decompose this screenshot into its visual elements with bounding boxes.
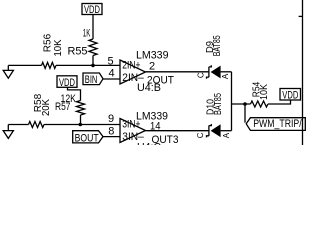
svg-text:5: 5 [107, 56, 113, 68]
wire pin8 [103, 136, 120, 138]
svg-text:4: 4 [108, 68, 114, 80]
diode D9 BAT85 [207, 65, 232, 78]
svg-text:8: 8 [108, 126, 114, 138]
svg-text:10K: 10K [53, 39, 64, 56]
svg-text:BOUT: BOUT [75, 133, 99, 145]
comparator U4:C [120, 110, 179, 153]
resistor R55 [89, 39, 97, 56]
svg-text:VDD: VDD [59, 77, 75, 89]
wire right border [302, 0, 304, 145]
resistor R56 [42, 62, 57, 68]
diode D10 BAT85 [207, 124, 232, 137]
wire pin5 left segment [8, 64, 41, 66]
wire output U4:B [146, 71, 209, 73]
svg-text:10K: 10K [259, 84, 270, 100]
power flag VDD2 [57, 76, 77, 89]
net flag PWM_TRIP [246, 118, 305, 131]
svg-text:U4:B: U4:B [137, 82, 161, 94]
svg-text:BIN: BIN [85, 74, 98, 86]
svg-text:C: C [196, 132, 205, 138]
resistor R57 [77, 101, 85, 116]
svg-text:VDD: VDD [84, 4, 100, 16]
power flag VDD1 [82, 4, 102, 17]
svg-text:9: 9 [108, 113, 114, 125]
wire D9 anode down [231, 72, 233, 104]
svg-text:R57: R57 [55, 101, 71, 113]
svg-text:1K: 1K [83, 27, 91, 39]
junction node [91, 64, 95, 68]
wire R57 to node [80, 115, 82, 125]
svg-text:2IN+: 2IN+ [122, 59, 140, 71]
wire R55 to node [92, 56, 94, 66]
wire pin5 right segment [56, 64, 120, 66]
power flag VDD3 [280, 89, 301, 102]
wire pin9 right segment [44, 124, 120, 126]
resistor R54 [251, 101, 268, 107]
svg-text:20K: 20K [41, 99, 52, 116]
wire trip node left segment [232, 103, 251, 105]
svg-text:VDD: VDD [282, 90, 298, 102]
svg-text:3IN+: 3IN+ [122, 118, 140, 130]
svg-text:BAT85: BAT85 [212, 35, 223, 56]
svg-text:2: 2 [149, 61, 155, 73]
svg-text:C: C [196, 72, 205, 78]
svg-text:A: A [221, 73, 230, 79]
wire output U4:C [146, 130, 209, 132]
svg-text:R55: R55 [68, 45, 88, 57]
wire VDD2 to R57 [68, 87, 81, 100]
net flag BIN [83, 73, 103, 86]
svg-text:U4:C: U4:C [137, 141, 161, 145]
svg-text:BAT85: BAT85 [213, 93, 224, 115]
wire D10 anode up [231, 104, 233, 131]
net flag BOUT [73, 131, 103, 145]
wire VDD1 to R55 [92, 15, 94, 40]
wire pin9 left segment [8, 124, 28, 126]
svg-text:A: A [222, 132, 231, 138]
ground (bottom left) [3, 125, 13, 139]
svg-text:PWM_TRIP/: PWM_TRIP/ [253, 118, 302, 130]
wire pin4 [103, 78, 120, 80]
wire R54 to VDD3 [268, 100, 291, 104]
junction node [243, 102, 247, 106]
wire border tick [299, 15, 303, 17]
resistor R58 [29, 122, 45, 128]
comparator U4:B [120, 50, 174, 95]
ground (top left) [3, 65, 13, 78]
wire tap to flag [244, 104, 246, 123]
junction node [79, 123, 83, 127]
